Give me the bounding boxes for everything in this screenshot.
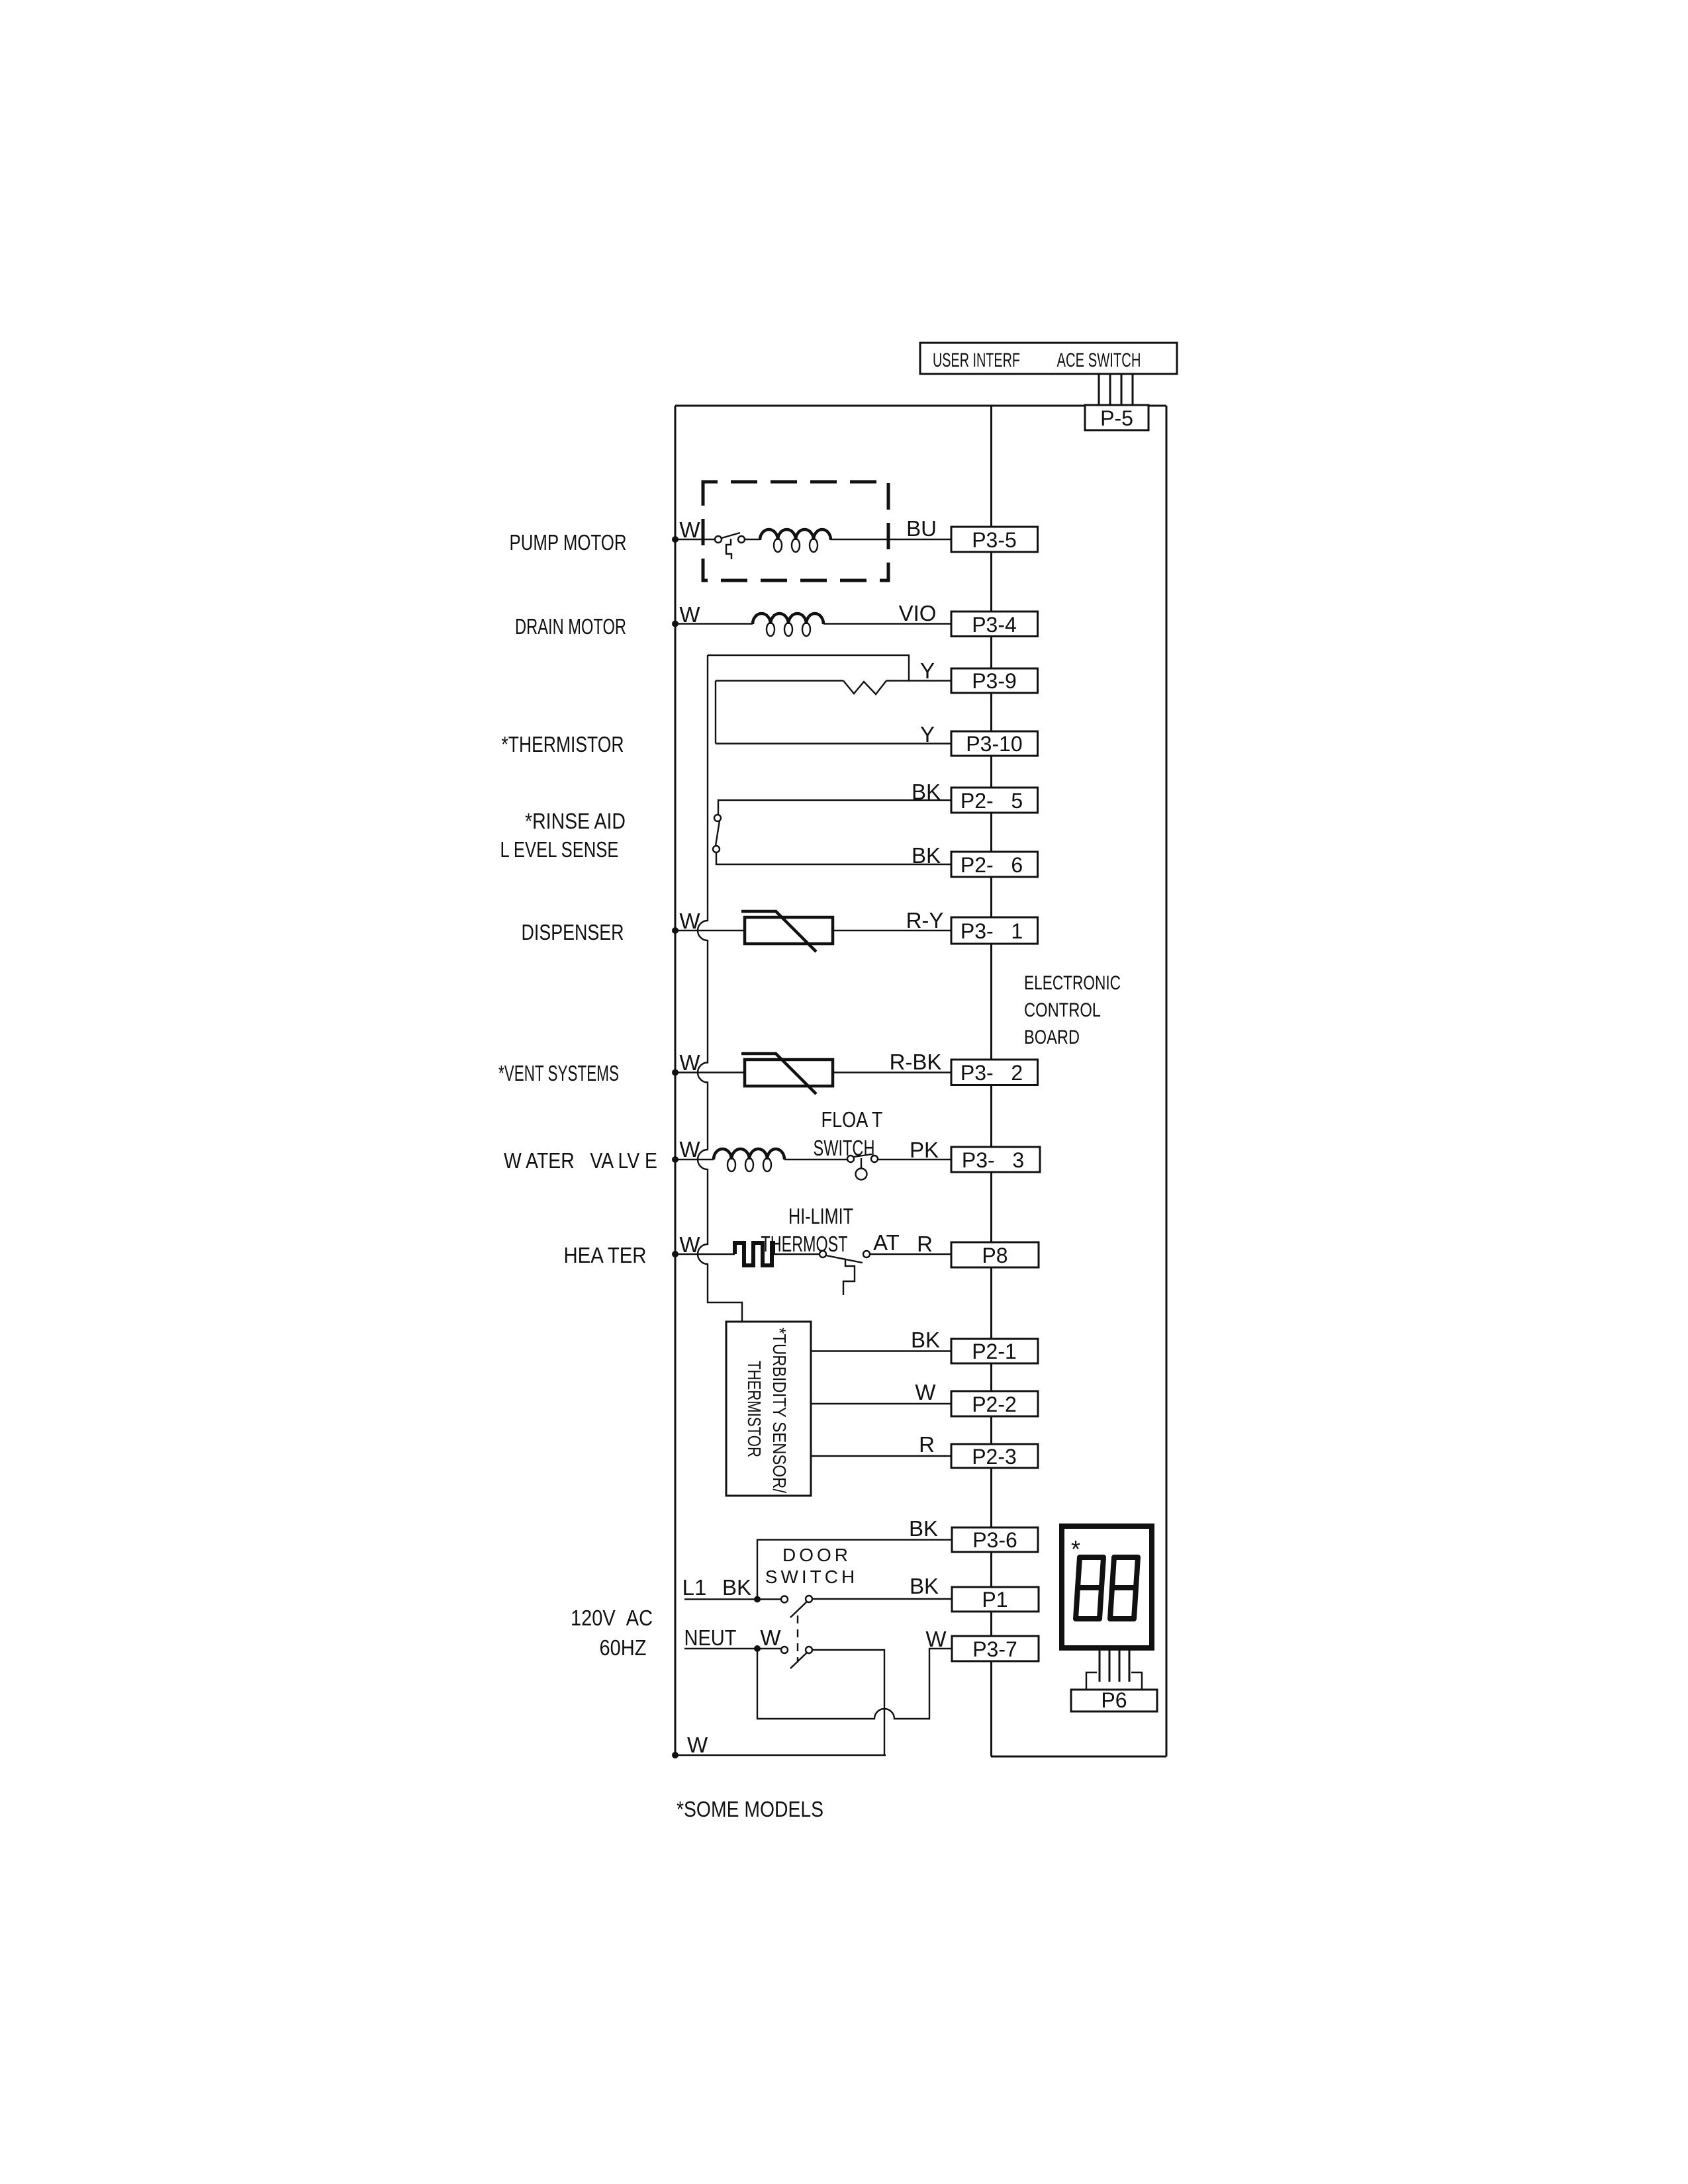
svg-text:HI-LIMIT: HI-LIMIT <box>788 1204 853 1228</box>
svg-text:P6: P6 <box>1101 1688 1127 1712</box>
node NEUT junction <box>754 1645 761 1652</box>
thermistor resistor element <box>843 681 886 695</box>
dispenser actuator <box>745 917 833 944</box>
svg-text:P2-2: P2-2 <box>972 1392 1017 1416</box>
LABELS <box>498 516 1121 1821</box>
water valve winding coil <box>714 1149 784 1160</box>
svg-text:SWITCH: SWITCH <box>814 1136 875 1160</box>
svg-text:L EVEL SENSE: L EVEL SENSE <box>500 837 619 862</box>
svg-text:P2- 5: P2- 5 <box>961 789 1023 813</box>
pump motor winding coil <box>760 529 831 540</box>
hi-limit thermostat switch <box>820 1251 826 1257</box>
node W pump motor <box>672 536 679 543</box>
connector P6 <box>1071 1690 1157 1711</box>
wire: P2-2 row <box>811 1403 951 1404</box>
connector P2-1 <box>951 1339 1038 1363</box>
wire: long vertical crossover line <box>698 655 742 1322</box>
wire: drain motor row <box>675 623 753 624</box>
node W vent <box>672 1069 679 1076</box>
svg-text:ELECTRONIC: ELECTRONIC <box>1024 972 1121 994</box>
svg-text:BK: BK <box>722 1575 751 1600</box>
CONNECTOR-BOXES <box>951 527 1040 1661</box>
svg-text:*VENT SYSTEMS: *VENT SYSTEMS <box>498 1061 619 1085</box>
svg-text:ACE SWITCH: ACE SWITCH <box>1057 349 1141 371</box>
svg-text:VIO: VIO <box>899 601 937 625</box>
svg-text:W: W <box>679 518 700 542</box>
connector P3-5 <box>951 527 1038 552</box>
svg-text:BK: BK <box>911 1328 940 1352</box>
svg-text:P3- 3: P3- 3 <box>962 1148 1024 1172</box>
user interface switch box <box>920 343 1177 374</box>
svg-text:120V AC: 120V AC <box>571 1606 653 1630</box>
svg-text:W: W <box>760 1625 781 1650</box>
svg-text:BK: BK <box>910 1574 939 1598</box>
svg-text:W: W <box>687 1733 708 1757</box>
connector P3-10 <box>951 731 1038 756</box>
wire: P3-9 row <box>716 680 843 681</box>
node W dispenser <box>672 927 679 934</box>
svg-text:*SOME MODELS: *SOME MODELS <box>677 1797 823 1821</box>
svg-text:SWITCH: SWITCH <box>765 1567 858 1587</box>
wire: thermistor inner loop vertical <box>715 681 716 744</box>
wire: lower pole to bottom bus <box>812 1650 884 1755</box>
wire: P3-10 row <box>716 743 951 744</box>
drain motor winding coil <box>753 614 823 624</box>
svg-text:BOARD: BOARD <box>1024 1026 1080 1048</box>
pump motor internal switch <box>715 536 722 543</box>
svg-text:W: W <box>679 602 700 627</box>
svg-text:FLOA T: FLOA T <box>821 1107 883 1132</box>
svg-text:DRAIN MOTOR: DRAIN MOTOR <box>515 614 626 639</box>
svg-text:NEUT: NEUT <box>684 1625 737 1650</box>
connector P3-9 <box>951 668 1038 693</box>
node W heater <box>672 1251 679 1257</box>
display digit 1 <box>1076 1557 1103 1619</box>
TOPSECTION <box>920 343 1177 430</box>
svg-text:60HZ: 60HZ <box>600 1635 647 1660</box>
svg-text:USER INTERF: USER INTERF <box>933 349 1020 371</box>
display connector collar <box>1086 1672 1142 1690</box>
svg-text:THERMISTOR: THERMISTOR <box>744 1361 765 1457</box>
svg-text:P3-4: P3-4 <box>972 613 1017 637</box>
svg-text:DOOR: DOOR <box>782 1545 851 1565</box>
svg-text:R-BK: R-BK <box>890 1050 942 1074</box>
svg-text:P3- 1: P3- 1 <box>961 919 1023 943</box>
svg-text:P3-6: P3-6 <box>972 1528 1017 1552</box>
wire: control board bottom edge <box>991 1756 1166 1758</box>
wire: rinse aid P2-5 row <box>718 800 951 815</box>
wire: P1 row <box>812 1598 951 1600</box>
svg-text:W ATER VA LV E: W ATER VA LV E <box>504 1148 657 1173</box>
svg-text:PUMP MOTOR: PUMP MOTOR <box>510 530 627 555</box>
wire: pump motor row <box>675 539 715 540</box>
wire: P3-6 row <box>757 1540 951 1600</box>
connector P-5 <box>1085 405 1149 430</box>
connector P2-5 <box>951 788 1038 813</box>
svg-text:P1: P1 <box>982 1588 1008 1612</box>
connector P3-6 <box>952 1527 1038 1552</box>
svg-text:BU: BU <box>906 516 937 541</box>
connector P2-2 <box>951 1391 1038 1416</box>
svg-text:R-Y: R-Y <box>906 908 944 933</box>
svg-text:P3-5: P3-5 <box>972 528 1017 552</box>
turbidity sensor box <box>726 1322 811 1496</box>
display pins <box>1099 1651 1101 1682</box>
svg-text:W: W <box>679 1137 700 1161</box>
svg-text:P3- 2: P3- 2 <box>961 1061 1023 1085</box>
wire: bottom W line <box>675 1754 886 1756</box>
svg-text:BK: BK <box>912 780 941 804</box>
wire: P2-1 row <box>811 1350 951 1351</box>
svg-text:R: R <box>919 1432 935 1457</box>
svg-text:P2-3: P2-3 <box>972 1445 1017 1469</box>
svg-text:PK: PK <box>910 1138 939 1162</box>
svg-text:W: W <box>679 909 700 933</box>
rinse aid level switch <box>714 815 721 821</box>
wire: thermistor outer loop <box>708 655 909 681</box>
svg-text:P3-7: P3-7 <box>972 1637 1017 1661</box>
connector P1 <box>952 1587 1039 1612</box>
svg-text:W: W <box>925 1627 947 1651</box>
svg-text:R: R <box>917 1232 933 1256</box>
BOARD-OUTLINE <box>675 406 1166 1756</box>
svg-text:*THERMISTOR: *THERMISTOR <box>502 732 624 756</box>
wire: control board left edge (connector column) <box>990 406 992 1756</box>
svg-text:*TURBIDITY SENSOR/: *TURBIDITY SENSOR/ <box>769 1328 790 1493</box>
float switch <box>847 1156 854 1162</box>
node W drain motor <box>672 621 679 627</box>
wire: NEUT line <box>684 1648 781 1649</box>
vent actuator <box>745 1060 833 1086</box>
pump motor dashed enclosure <box>703 482 888 580</box>
wire: left supply bus <box>675 406 677 1755</box>
door switch lower pole <box>781 1647 788 1653</box>
svg-text:BK: BK <box>912 843 941 868</box>
wire: heater row <box>675 1253 735 1255</box>
svg-text:L1: L1 <box>682 1575 707 1600</box>
wire: control board right edge <box>1166 406 1168 1756</box>
door switch upper pole <box>781 1596 788 1603</box>
svg-text:W: W <box>679 1232 700 1257</box>
wire: neutral to P3-7 with crossover <box>757 1649 951 1719</box>
svg-text:P2-1: P2-1 <box>972 1340 1017 1363</box>
wire: L1 line <box>684 1598 781 1600</box>
node W water valve <box>672 1156 679 1163</box>
wire: user interface pins to P-5 <box>1098 374 1100 406</box>
connector P3-2 <box>951 1060 1038 1085</box>
svg-text:P3-10: P3-10 <box>966 732 1022 756</box>
svg-text:Y: Y <box>920 722 935 747</box>
svg-text:P2- 6: P2- 6 <box>961 853 1023 877</box>
node L1 junction <box>754 1596 761 1603</box>
node W bottom <box>672 1752 679 1758</box>
door switch gang link <box>797 1615 798 1662</box>
wire: vent row <box>675 1071 745 1073</box>
svg-text:DISPENSER: DISPENSER <box>522 920 624 944</box>
connector P3-7 <box>952 1636 1039 1661</box>
connector P3-1 <box>951 917 1038 944</box>
connector P2-3 <box>951 1444 1038 1468</box>
connector P8 <box>951 1242 1039 1267</box>
svg-text:W: W <box>679 1050 700 1075</box>
svg-text:P8: P8 <box>982 1244 1008 1267</box>
svg-text:HEA TER: HEA TER <box>564 1243 647 1267</box>
svg-text:Y: Y <box>920 659 935 683</box>
connector P3-3 <box>951 1147 1040 1172</box>
svg-text:BK: BK <box>909 1516 938 1541</box>
display digit 2 <box>1110 1557 1138 1619</box>
wire: control board top edge <box>675 405 1166 407</box>
ROWS <box>672 482 1157 1758</box>
svg-text:CONTROL: CONTROL <box>1024 999 1101 1021</box>
heater element <box>735 1243 773 1265</box>
svg-text:THERMOST: THERMOST <box>761 1232 848 1256</box>
svg-text:P-5: P-5 <box>1100 406 1133 430</box>
wire: water valve row <box>675 1159 714 1160</box>
svg-text:*RINSE AID: *RINSE AID <box>525 809 626 833</box>
seven segment display <box>1062 1526 1152 1648</box>
connector P2-6 <box>951 852 1038 877</box>
connector P3-4 <box>951 612 1038 637</box>
wire: dispenser row <box>675 930 745 931</box>
wire: rinse aid P2-6 row <box>716 852 951 864</box>
wire: P2-3 row <box>811 1455 951 1457</box>
svg-text:AT: AT <box>873 1230 900 1255</box>
svg-text:W: W <box>915 1380 936 1404</box>
svg-text:P3-9: P3-9 <box>972 669 1017 693</box>
